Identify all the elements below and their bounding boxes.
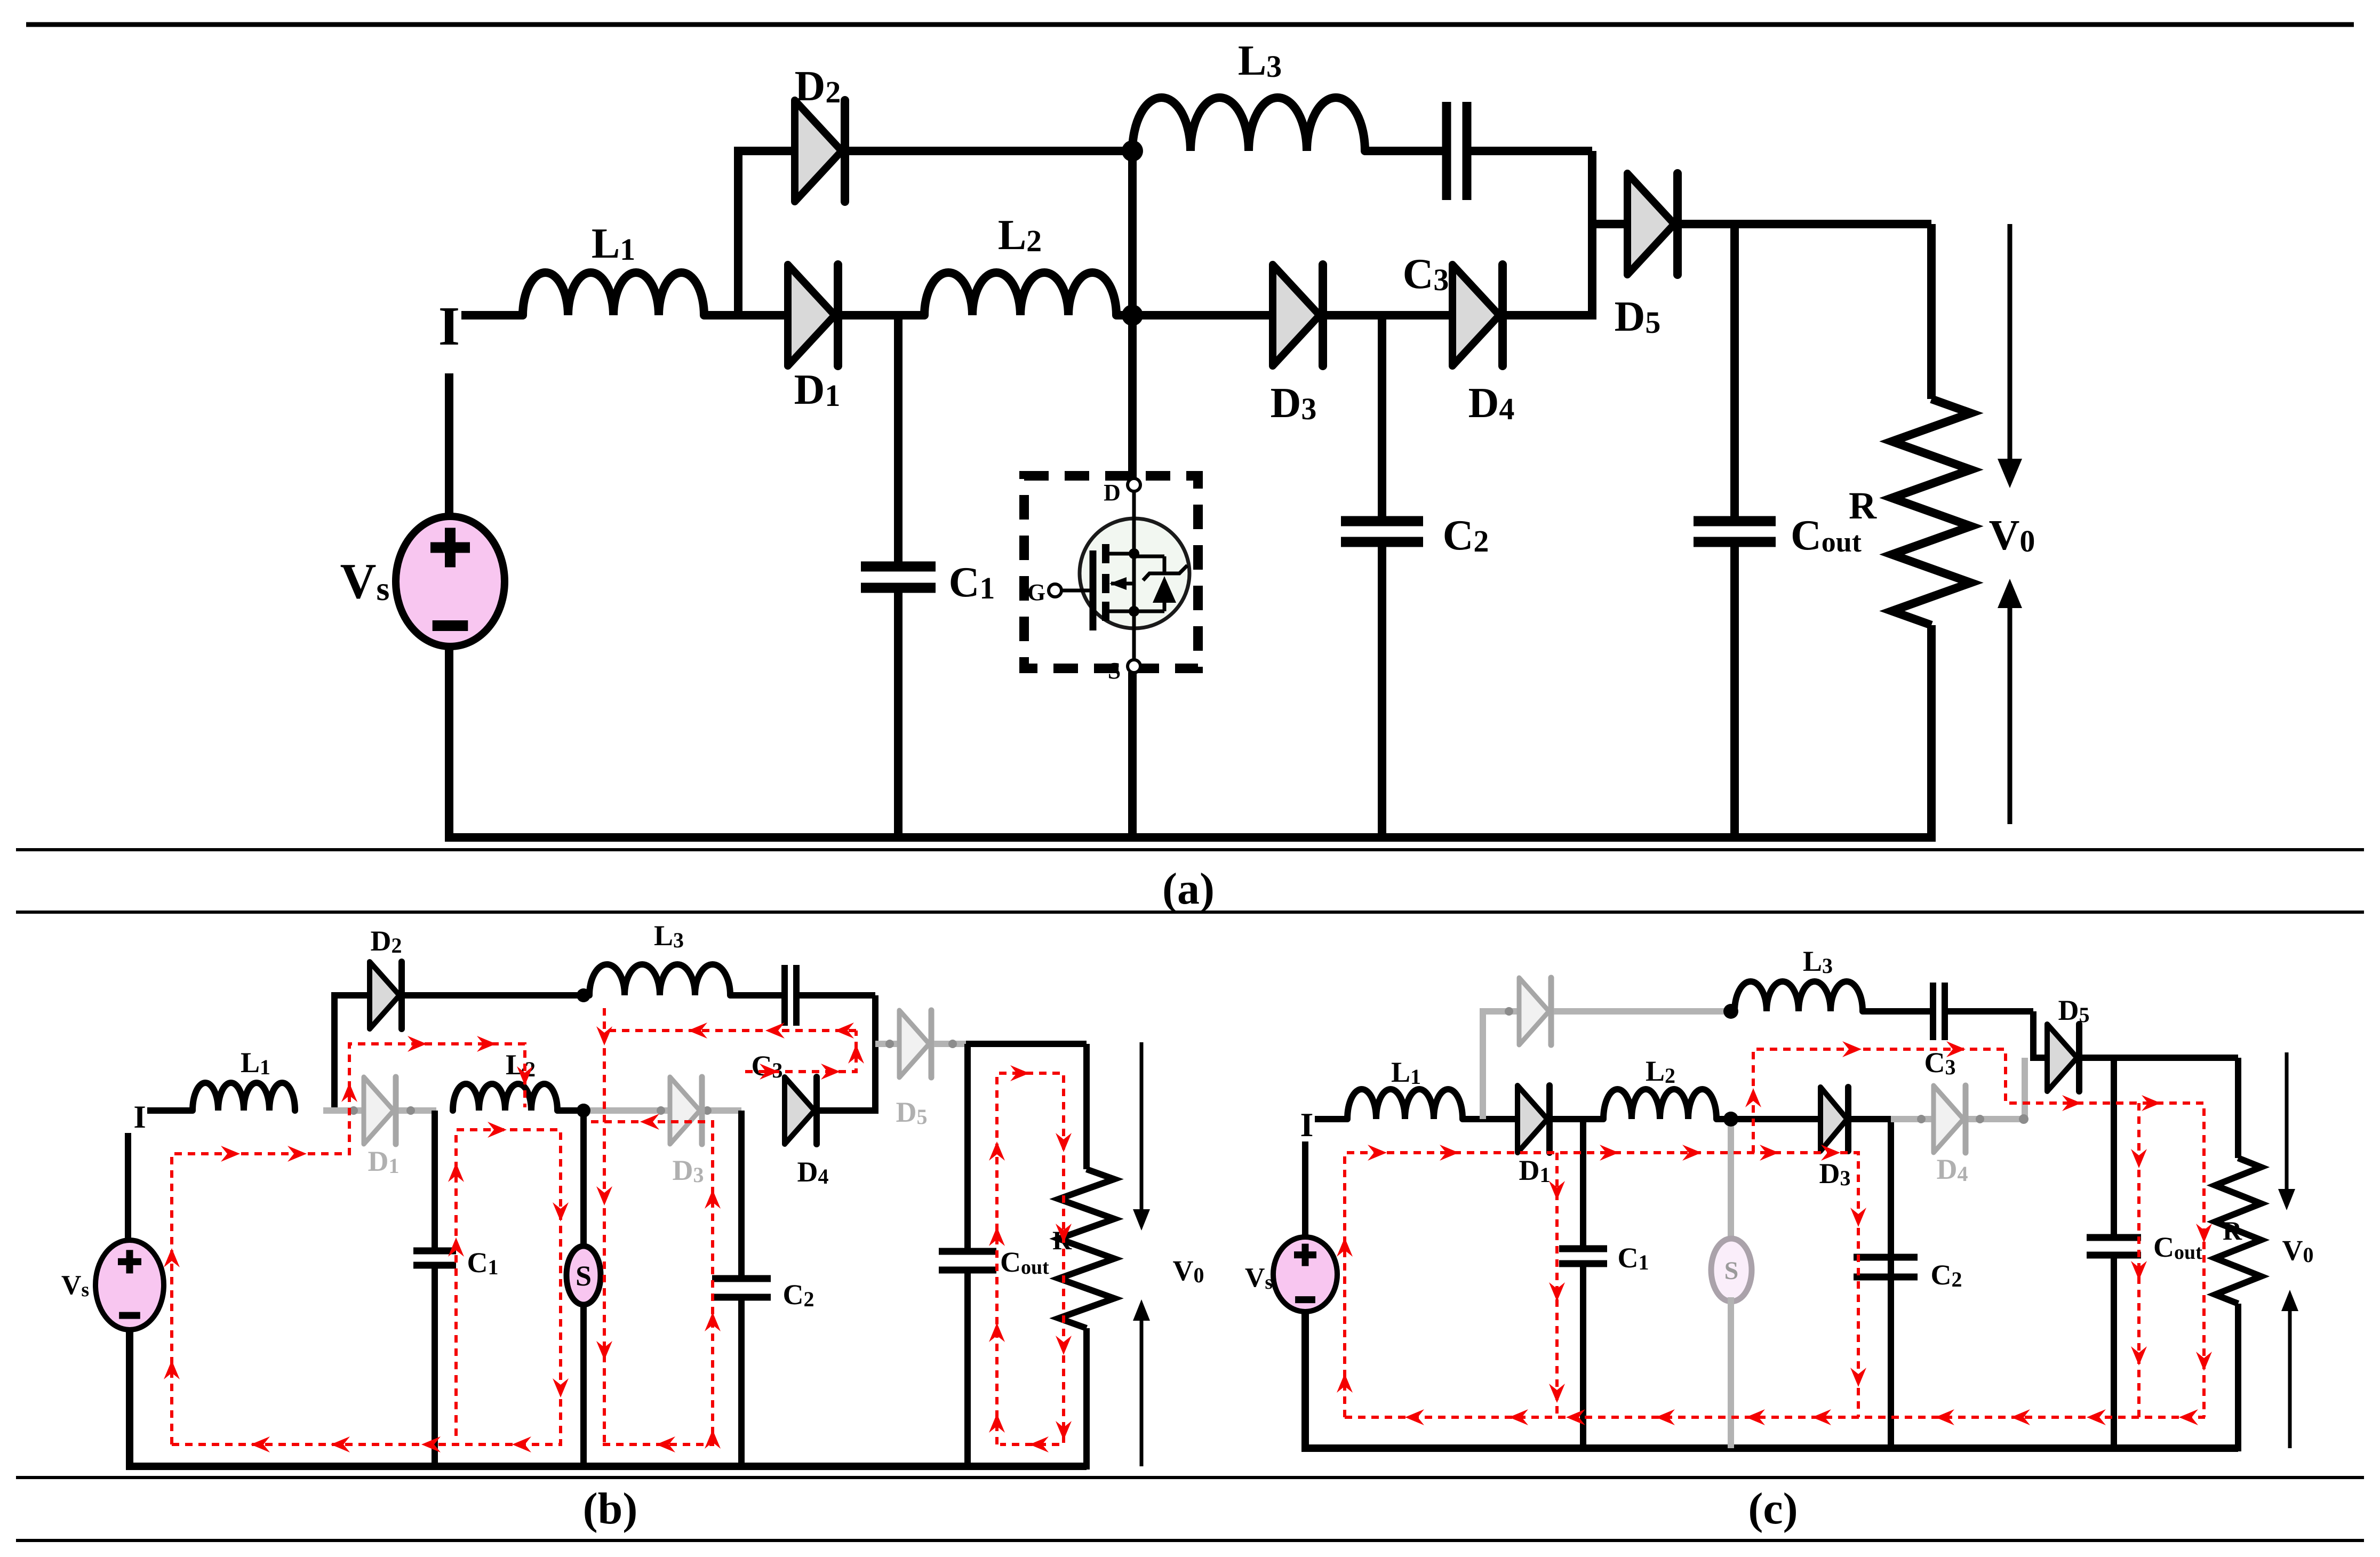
svg-text:(a): (a) <box>1162 864 1215 914</box>
svg-text:D: D <box>1104 480 1121 506</box>
svg-text:S: S <box>1108 658 1121 684</box>
svg-text:I: I <box>438 296 460 357</box>
svg-text:S: S <box>576 1260 592 1292</box>
svg-text:R: R <box>1849 484 1877 527</box>
svg-text:I: I <box>1300 1106 1314 1144</box>
svg-text:S: S <box>1724 1257 1739 1285</box>
svg-text:(c): (c) <box>1748 1484 1798 1534</box>
svg-text:G: G <box>1027 579 1045 605</box>
svg-text:I: I <box>133 1099 146 1135</box>
svg-text:(b): (b) <box>583 1484 638 1534</box>
